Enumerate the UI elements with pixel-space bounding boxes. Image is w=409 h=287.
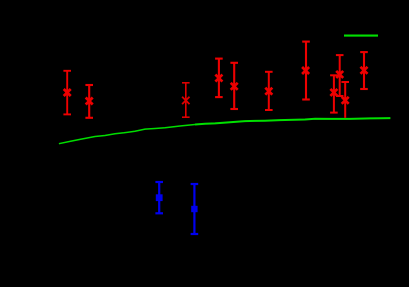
red point R9	[336, 55, 344, 96]
red point R2	[85, 85, 93, 118]
red point R4	[215, 59, 223, 98]
red point R6	[265, 72, 273, 110]
green legend line	[344, 35, 378, 37]
red point R3	[182, 83, 190, 117]
red point R10	[341, 82, 349, 118]
blue point B1	[155, 182, 163, 213]
green model curve (left part)	[59, 125, 195, 144]
green model curve (right part)	[195, 118, 390, 124]
red point R8	[330, 75, 338, 112]
red point R1	[63, 71, 71, 115]
red point R11	[360, 52, 368, 89]
blue point B2	[191, 184, 199, 234]
red point R5	[230, 63, 238, 109]
red point R7	[302, 42, 310, 100]
